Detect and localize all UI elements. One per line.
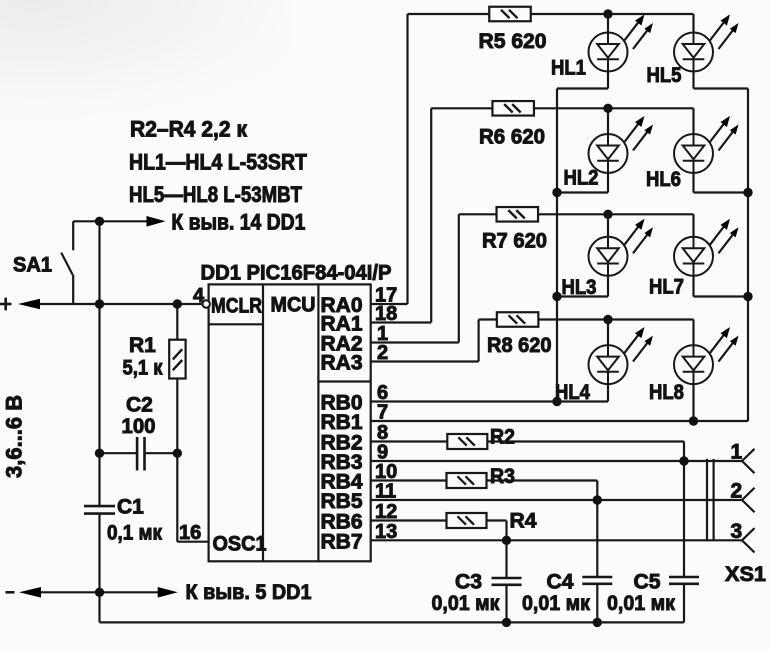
svg-text:0,01 мк: 0,01 мк <box>607 592 675 615</box>
svg-text:HL6: HL6 <box>646 168 681 191</box>
svg-text:C3: C3 <box>455 571 482 594</box>
svg-text:3: 3 <box>731 520 743 543</box>
svg-text:HL1—HL4 L-53SRT: HL1—HL4 L-53SRT <box>129 150 307 175</box>
svg-text:HL5: HL5 <box>647 64 682 87</box>
svg-text:HL8: HL8 <box>649 381 684 404</box>
svg-text:RB7: RB7 <box>321 530 363 553</box>
svg-text:11: 11 <box>375 481 396 503</box>
svg-text:3,6...6 В: 3,6...6 В <box>2 395 27 478</box>
svg-text:HL2: HL2 <box>564 167 599 190</box>
svg-text:HL4: HL4 <box>555 381 590 404</box>
svg-text:MCLR: MCLR <box>211 294 262 317</box>
svg-text:0,01 мк: 0,01 мк <box>522 592 590 615</box>
svg-text:К выв. 14 DD1: К выв. 14 DD1 <box>171 210 305 235</box>
svg-text:16: 16 <box>179 522 201 544</box>
svg-text:RA3: RA3 <box>321 352 363 375</box>
svg-text:C4: C4 <box>547 571 574 594</box>
svg-text:0,01 мк: 0,01 мк <box>432 592 500 615</box>
svg-text:HL7: HL7 <box>649 276 684 299</box>
svg-text:7: 7 <box>377 402 388 424</box>
svg-text:2: 2 <box>377 342 388 364</box>
svg-text:XS1: XS1 <box>725 563 766 586</box>
svg-text:0,1 мк: 0,1 мк <box>107 522 162 545</box>
svg-text:R5 620: R5 620 <box>479 30 547 53</box>
svg-text:HL3: HL3 <box>562 276 597 299</box>
svg-text:1: 1 <box>731 441 743 464</box>
svg-text:R7 620: R7 620 <box>482 230 547 253</box>
svg-text:C5: C5 <box>634 571 661 594</box>
svg-text:C2: C2 <box>126 394 153 417</box>
svg-text:R2: R2 <box>490 426 515 449</box>
svg-text:100: 100 <box>122 415 156 438</box>
svg-text:13: 13 <box>375 521 397 543</box>
svg-text:OSC1: OSC1 <box>213 533 267 556</box>
svg-text:DD1 PIC16F84-04I/P: DD1 PIC16F84-04I/P <box>201 262 392 285</box>
svg-text:HL5—HL8 L-53MBT: HL5—HL8 L-53MBT <box>129 182 302 207</box>
svg-text:5,1 к: 5,1 к <box>123 357 163 380</box>
svg-text:R2–R4 2,2 к: R2–R4 2,2 к <box>130 117 248 142</box>
svg-text:2: 2 <box>731 480 743 503</box>
svg-text:R1: R1 <box>129 334 156 357</box>
svg-text:R8 620: R8 620 <box>487 334 552 357</box>
svg-text:MCU: MCU <box>271 294 316 317</box>
svg-text:4: 4 <box>193 285 205 307</box>
svg-text:SA1: SA1 <box>13 254 52 277</box>
svg-text:18: 18 <box>375 303 397 325</box>
svg-text:C1: C1 <box>117 496 144 519</box>
svg-text:К выв. 5 DD1: К выв. 5 DD1 <box>186 581 312 604</box>
svg-text:R4: R4 <box>510 510 537 533</box>
svg-text:R3: R3 <box>490 465 515 488</box>
svg-text:12: 12 <box>375 501 397 523</box>
svg-text:R6 620: R6 620 <box>479 126 545 149</box>
svg-text:HL1: HL1 <box>551 57 586 80</box>
